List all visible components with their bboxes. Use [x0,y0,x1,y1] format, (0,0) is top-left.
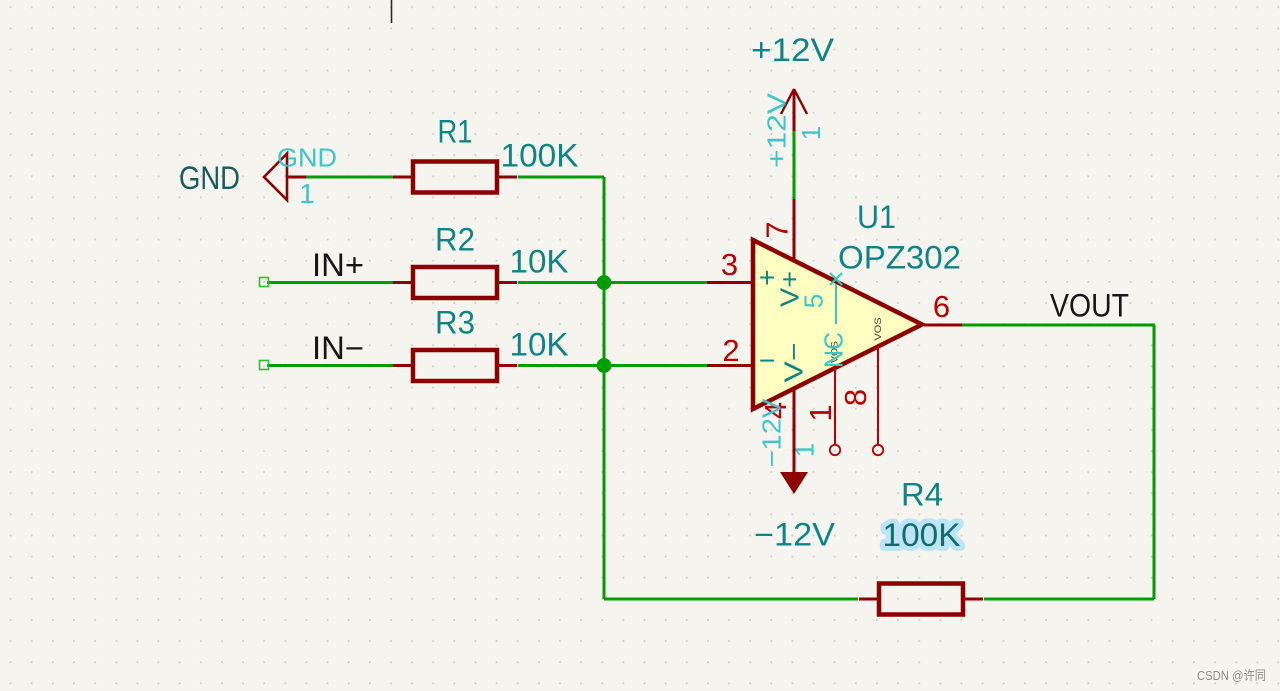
svg-text:6: 6 [933,289,950,324]
svg-text:R4: R4 [901,477,943,513]
svg-text:3: 3 [721,247,738,282]
svg-text:GND: GND [277,142,337,172]
svg-text:5: 5 [798,294,828,308]
svg-text:8: 8 [838,389,873,406]
svg-text:V−: V− [778,343,808,383]
svg-text:1: 1 [803,404,838,421]
svg-text:GND: GND [179,160,240,196]
svg-text:10K: 10K [510,244,569,280]
svg-text:OPZ302: OPZ302 [838,240,961,276]
svg-text:100K: 100K [883,517,961,553]
svg-text:−12V: −12V [754,517,836,553]
svg-text:10K: 10K [510,327,569,363]
svg-text:100K: 100K [501,138,579,174]
svg-text:+: + [759,262,775,293]
svg-text:R3: R3 [435,305,475,341]
svg-text:VOUT: VOUT [1050,288,1129,324]
svg-text:IN−: IN− [312,330,364,366]
svg-text:+12V: +12V [761,92,791,168]
svg-text:+12V: +12V [751,32,835,68]
svg-text:1: 1 [796,126,826,140]
svg-text:U1: U1 [857,199,896,235]
svg-text:R1: R1 [438,114,473,150]
svg-text:CSDN @许同: CSDN @许同 [1197,668,1266,683]
svg-text:VOS: VOS [873,318,883,341]
svg-text:1: 1 [789,443,819,457]
svg-text:−12V: −12V [756,398,786,468]
svg-text:NC: NC [818,332,848,368]
svg-text:2: 2 [722,333,739,368]
svg-text:1: 1 [299,178,315,209]
svg-text:7: 7 [760,221,795,238]
svg-text:−: − [759,345,775,376]
svg-text:IN+: IN+ [312,247,364,283]
svg-text:R2: R2 [435,222,475,258]
